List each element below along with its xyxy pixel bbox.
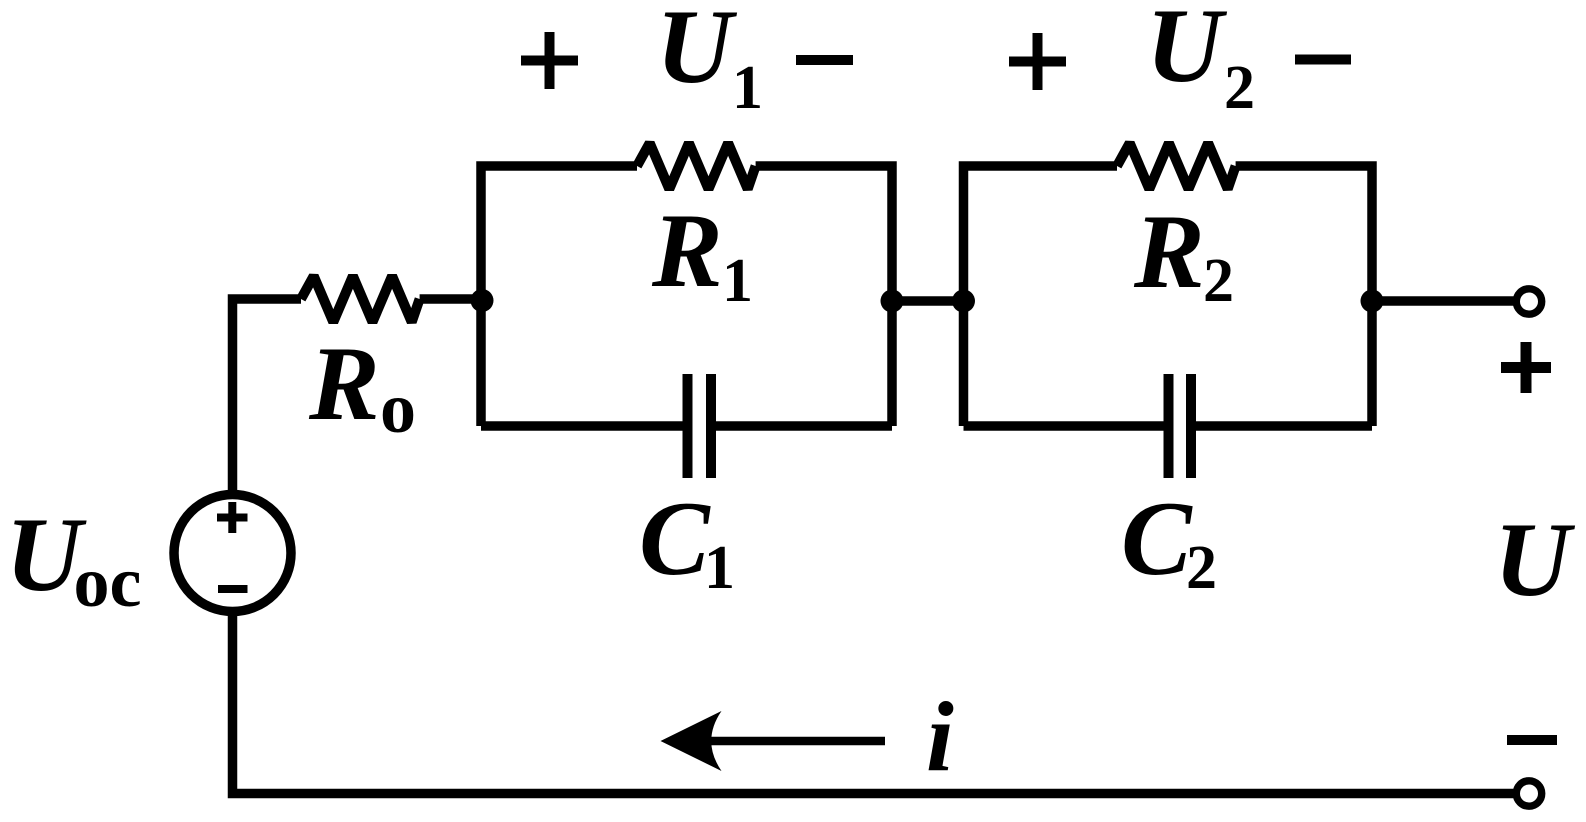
wire R0 to node A	[420, 294, 482, 304]
plus sign of U2	[1009, 33, 1066, 90]
resistor R0 zigzag	[301, 276, 420, 322]
current arrow i head	[661, 711, 722, 771]
voltage source Uoc circle	[174, 495, 291, 612]
resistor R2 zigzag	[1117, 143, 1236, 189]
terminal bottom-right open circle	[1516, 781, 1541, 806]
wire capacitor C1 to box1 bottom right	[711, 421, 892, 431]
svg-text:2: 2	[1186, 534, 1217, 602]
svg-text:1: 1	[732, 54, 763, 122]
svg-text:U: U	[1146, 0, 1228, 104]
plus sign inside source	[217, 502, 248, 533]
wire box1 bottom left to capacitor C1	[481, 421, 688, 431]
minus sign of U2	[1295, 55, 1351, 65]
terminal top-right open circle	[1516, 289, 1541, 314]
wire source bottom to bottom rail	[233, 611, 1514, 794]
wire capacitor C2 to box2 bottom right	[1191, 421, 1372, 431]
minus sign output polarity	[1507, 735, 1557, 745]
wire R1 to box1 right vertical	[756, 166, 892, 426]
wire node A to node B between boxes	[892, 296, 964, 306]
svg-text:2: 2	[1224, 54, 1255, 122]
svg-text:C: C	[1121, 480, 1193, 597]
svg-text:R: R	[308, 325, 380, 442]
svg-text:C: C	[639, 480, 711, 597]
node D junction dot box2 right	[1361, 290, 1384, 313]
svg-text:oc: oc	[74, 542, 142, 622]
node A junction dot	[471, 289, 494, 312]
svg-text:U: U	[1494, 501, 1576, 618]
capacitor C1 plates	[688, 374, 712, 478]
node C junction dot box2 left	[952, 290, 975, 313]
svg-text:2: 2	[1203, 247, 1234, 315]
svg-text:R: R	[1133, 193, 1205, 310]
plus sign output polarity	[1501, 342, 1551, 393]
node B junction dot box1 right	[881, 290, 904, 313]
svg-text:1: 1	[722, 247, 753, 315]
resistor R1 zigzag	[637, 143, 756, 189]
wire left rail to source top	[233, 299, 302, 496]
current arrow i shaft	[690, 737, 885, 746]
capacitor C2 plates	[1169, 374, 1192, 478]
svg-text:o: o	[380, 368, 416, 448]
svg-text:i: i	[926, 681, 954, 792]
plus sign of U1	[521, 32, 578, 89]
minus sign inside source	[218, 585, 248, 593]
wire box2 left vertical	[964, 166, 1118, 426]
minus sign of U1	[796, 55, 853, 65]
svg-text:R: R	[651, 192, 723, 309]
wire box1 left vertical	[481, 166, 637, 426]
svg-text:U: U	[656, 0, 738, 105]
wire box2 bottom left to capacitor C2	[964, 421, 1170, 431]
wire output rail to terminal	[1372, 296, 1514, 306]
wire R2 to box2 right vertical	[1236, 166, 1372, 426]
svg-text:1: 1	[704, 534, 735, 602]
